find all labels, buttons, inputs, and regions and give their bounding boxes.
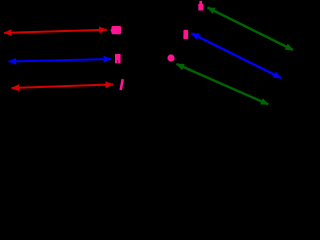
arrow A1 (red double-headed, top left)	[4, 30, 107, 33]
arrow A5 (blue double-headed diagonal, middle right)	[191, 33, 281, 78]
label L1 (pink glyph right of A1)	[111, 26, 121, 34]
arrow A3 (red double-headed, bottom left)	[12, 84, 114, 88]
arrow A4 (dark green double-headed diagonal, top right)	[208, 8, 294, 51]
arrow A2 (blue double-headed, middle left)	[9, 59, 111, 62]
label L4 (pink b-shaped glyph at top of A4)	[198, 1, 203, 11]
label L6 (pink round glyph at top of A6)	[167, 54, 174, 61]
arrow A6 (dark green double-headed diagonal, bottom right)	[177, 64, 269, 104]
label L3 (pink slanted-bar glyph right of A3)	[119, 79, 124, 90]
label L2 (pink n-shaped glyph right of A2)	[115, 54, 121, 63]
label L5 (pink glyph at top of A5)	[183, 30, 188, 39]
